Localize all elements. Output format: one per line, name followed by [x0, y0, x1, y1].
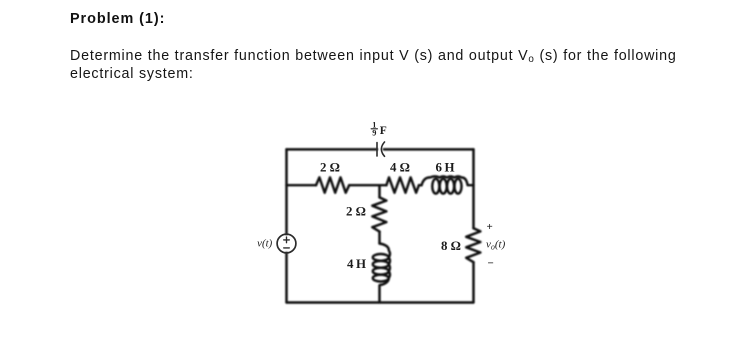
wire: top rail right of capacitor — [384, 148, 474, 150]
svg-text:2 Ω: 2 Ω — [320, 161, 340, 175]
wire: mid rail between 4ohm and 6H — [419, 184, 422, 186]
svg-text:v(t): v(t) — [257, 239, 272, 250]
wire: left rail upper (top corner to source) — [285, 149, 287, 234]
resistor R1 2ohm horizontal — [316, 177, 349, 192]
resistor R3 2ohm vertical — [372, 197, 386, 231]
wire: mid rail left segment — [287, 184, 317, 186]
svg-text:8 Ω: 8 Ω — [441, 239, 461, 253]
svg-text:6 H: 6 H — [435, 161, 454, 175]
wire: right rail upper — [472, 149, 474, 228]
wire: mid rail between 2ohm and junction — [349, 184, 386, 186]
inductor L1 6H horizontal — [422, 176, 474, 193]
svg-text:vo(t): vo(t) — [486, 239, 506, 252]
source polarity marks — [284, 237, 290, 248]
wire: between 2ohm and 4H — [378, 232, 380, 244]
svg-text:4 Ω: 4 Ω — [390, 161, 410, 175]
capacitor C 1/9F plates — [377, 142, 385, 156]
inductor L2 4H vertical — [373, 244, 390, 303]
svg-text:2 Ω: 2 Ω — [346, 205, 366, 219]
svg-text:9: 9 — [372, 129, 376, 138]
svg-text:4 H: 4 H — [347, 257, 366, 271]
wire: middle branch junction down to 2ohm — [378, 185, 380, 197]
svg-text:+: + — [487, 221, 493, 233]
source v(t) circle — [277, 234, 296, 253]
wire: left rail lower (source to bottom corner) — [285, 253, 287, 303]
resistor R4 8ohm vertical — [466, 228, 480, 262]
resistor R2 4ohm horizontal — [386, 177, 419, 192]
wire: right rail lower — [472, 262, 474, 302]
svg-text:−: − — [488, 258, 494, 270]
svg-text:F: F — [380, 125, 387, 137]
wire: top rail left of capacitor — [287, 148, 378, 150]
wire: bottom rail — [287, 301, 474, 303]
